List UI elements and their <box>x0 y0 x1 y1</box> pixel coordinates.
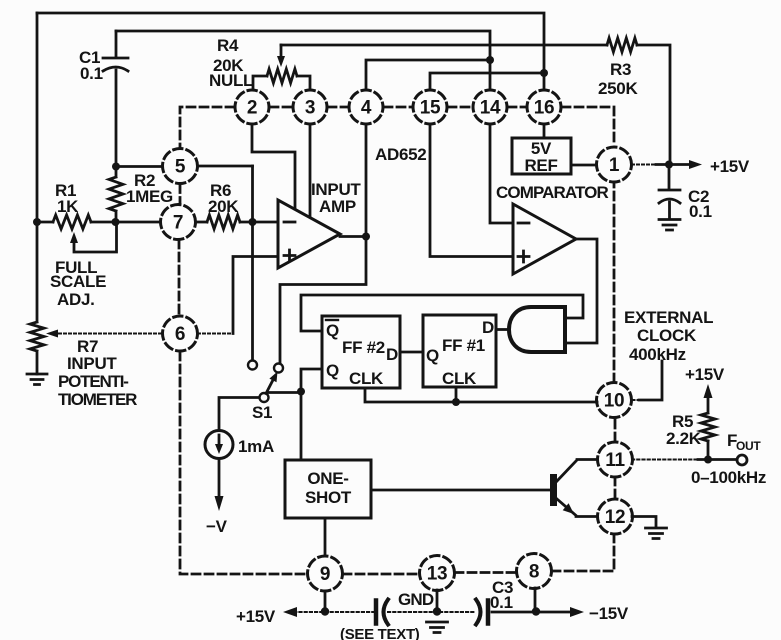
+15V rail arrow left <box>283 607 297 617</box>
wire pin 1 to +15V node <box>632 164 690 166</box>
5V REF box <box>512 138 571 174</box>
wire pin 4 down through amp output to S1 right contact <box>280 124 366 363</box>
wire pin 2 jog down to amp top <box>252 124 295 209</box>
resistor R1 (pot) <box>53 215 91 229</box>
dashed IC edge pin 16 to pin 1 <box>562 107 614 146</box>
wire FF2 D to FF1 Q <box>400 351 423 354</box>
svg-text:15: 15 <box>420 98 441 119</box>
label FF2 pins <box>326 321 398 388</box>
pin 3 <box>293 90 327 124</box>
label SEE TEXT <box>340 626 420 640</box>
wire comparator output to gate lower input <box>568 239 597 343</box>
svg-text:0–100kHz: 0–100kHz <box>691 468 766 487</box>
svg-text:ADJ.: ADJ. <box>57 290 95 309</box>
svg-text:1K: 1K <box>57 197 79 216</box>
wire node column down to switch S1 left contact <box>251 166 254 360</box>
svg-text:250K: 250K <box>598 79 638 98</box>
pin 8 <box>517 554 552 589</box>
svg-text:2.2K: 2.2K <box>666 429 702 448</box>
wire 5V REF to pin 1 <box>571 164 596 167</box>
svg-text:TIOMETER: TIOMETER <box>58 390 137 409</box>
wire pin 3 down to amp top <box>309 124 312 216</box>
one-shot box <box>285 460 371 518</box>
svg-text:OUT: OUT <box>736 439 761 453</box>
svg-text:11: 11 <box>605 450 625 471</box>
pin 15 <box>413 90 447 124</box>
wire R5 bottom lead to Fout node <box>707 441 710 460</box>
svg-text:CLK: CLK <box>349 369 384 388</box>
R1 wiper full scale adj loop <box>70 225 117 252</box>
pin 11 <box>598 442 633 477</box>
svg-text:9: 9 <box>320 564 330 585</box>
svg-text:6: 6 <box>175 324 185 345</box>
dashed IC edge pin 2 to pin 5 <box>180 107 234 147</box>
pin 16 <box>527 90 561 124</box>
svg-text:5: 5 <box>175 157 186 178</box>
label -15V bottom rail <box>589 604 629 623</box>
wire pin 12 to ground <box>632 517 656 528</box>
wire pin 10 to external clock stub <box>632 361 662 400</box>
svg-text:7: 7 <box>173 213 183 234</box>
wire one-shot output to transistor base <box>371 489 550 492</box>
svg-text:20K: 20K <box>208 197 239 216</box>
svg-text:EXTERNAL: EXTERNAL <box>624 308 713 327</box>
wire pin 14 down to comparator minus <box>490 124 513 223</box>
svg-text:4: 4 <box>361 98 372 119</box>
dashed link pin 15 to pin 14 <box>448 106 472 109</box>
flip-flop FF#1 box <box>423 315 496 387</box>
wire FF2 Q down to one-shot input <box>301 369 322 460</box>
svg-text:Q: Q <box>426 346 439 365</box>
svg-text:0.1: 0.1 <box>689 202 712 221</box>
label INPUT AMP <box>311 180 361 216</box>
svg-text:NULL: NULL <box>209 71 253 90</box>
pin 14 <box>473 90 507 124</box>
comparator minus sign <box>518 222 529 225</box>
wire pin 8 down to bottom rail <box>534 588 537 612</box>
label EXTERNAL CLOCK 400kHz <box>624 308 713 364</box>
pin 5 <box>163 149 198 184</box>
wire pin 15 top to pin 16 riser <box>430 73 544 89</box>
pin 6 <box>163 316 198 351</box>
wire S1 common to 1mA source <box>219 398 259 431</box>
op-amp U1 input amp triangle <box>278 200 340 268</box>
wire FF1 D to gate output <box>496 328 509 331</box>
resistor R7 (input potentiometer) <box>30 222 44 374</box>
svg-text:D: D <box>482 318 494 337</box>
label R2 value <box>126 171 173 206</box>
resistor R2 <box>109 167 123 223</box>
pin 12 <box>598 499 633 534</box>
svg-text:REF: REF <box>524 156 557 175</box>
svg-text:+15V: +15V <box>236 607 276 626</box>
svg-text:FF #1: FF #1 <box>442 336 485 355</box>
svg-text:400kHz: 400kHz <box>629 345 686 364</box>
wire left edge down to input node <box>36 13 39 222</box>
AND gate (mirrored) <box>509 307 565 352</box>
wire amp output to pin 4 column <box>340 235 366 238</box>
capacitor C3 <box>476 600 488 625</box>
label +15V bottom rail <box>236 607 276 626</box>
svg-text:1: 1 <box>609 155 620 176</box>
svg-text:0.1: 0.1 <box>80 64 103 83</box>
wire top rail from left corner to pin 16 riser <box>37 13 544 89</box>
svg-text:POTENTI-: POTENTI- <box>58 372 128 391</box>
pin 13 <box>420 556 455 591</box>
comparator triangle <box>513 204 576 274</box>
R7 wiper arrow <box>46 330 58 338</box>
svg-text:SHOT: SHOT <box>305 488 352 507</box>
svg-text:+15V: +15V <box>710 157 750 176</box>
dashed link pin 3 to pin 4 <box>328 106 348 109</box>
label +15V at R5 <box>685 365 725 384</box>
dashed IC edge pin 10 to pin 1 <box>613 184 616 382</box>
svg-text:3: 3 <box>305 98 315 119</box>
label R7 input potentiometer <box>58 337 137 409</box>
-15V rail arrow right <box>570 607 584 617</box>
wire one-shot bottom to pin 9 <box>324 518 327 556</box>
wire FF2 Qbar up over to gate upper input <box>301 295 583 331</box>
pin 10 <box>597 383 632 418</box>
svg-text:8: 8 <box>529 562 539 583</box>
wire pin 5 to node column <box>116 165 253 168</box>
wire pin 13 down to bottom rail GND node <box>436 590 439 612</box>
minus V lead arrow <box>215 459 224 512</box>
dashed IC edge pin 6 to pin 9 <box>180 352 307 574</box>
svg-text:COMPARATOR: COMPARATOR <box>496 183 609 202</box>
dashed link pin 5 to pin 7 <box>179 185 182 205</box>
capacitor C2 <box>659 165 680 220</box>
wire amp plus input from pin 6 <box>233 257 278 334</box>
svg-text:AMP: AMP <box>319 197 356 216</box>
label ONE-SHOT <box>305 469 352 507</box>
rail capacitor see-text <box>376 600 388 625</box>
dashed link pin 4 to pin 15 <box>384 106 412 109</box>
label R6 value <box>208 181 239 216</box>
dashed IC edge pin 8 to pin 12 <box>552 534 614 571</box>
ground at GND rail node <box>427 622 448 633</box>
svg-text:R4: R4 <box>217 36 239 55</box>
svg-text:Q: Q <box>326 361 339 380</box>
wire pin 7 to R6 <box>196 221 207 224</box>
label C1 value <box>79 48 103 83</box>
switch S1 contacts <box>248 361 283 403</box>
svg-text:CLK: CLK <box>442 369 477 388</box>
svg-text:FF #2: FF #2 <box>342 338 385 357</box>
dashed link pin 14 to pin 16 <box>508 106 526 109</box>
R4 wiper arrow <box>277 45 285 67</box>
label S1 <box>252 403 272 422</box>
svg-text:SCALE: SCALE <box>50 272 106 291</box>
label C2 value <box>688 187 712 221</box>
pin 2 <box>235 90 269 124</box>
R5 +15V arrow <box>704 384 713 398</box>
comparator plus sign <box>518 251 529 262</box>
svg-text:1mA: 1mA <box>238 437 274 456</box>
svg-text:CLOCK: CLOCK <box>637 326 697 345</box>
label R3 value <box>598 60 638 98</box>
dashed link pin 11 to pin 10 <box>614 419 617 441</box>
label Fout <box>727 431 761 453</box>
wire pin 15 down to comparator plus <box>430 124 513 257</box>
wire R4 wiper rail to R3 and +15V corner <box>281 45 670 165</box>
capacitor C1 <box>103 31 128 167</box>
label 5V REF <box>524 139 557 175</box>
ground below R7 <box>27 374 47 385</box>
dashed link pin 12 to pin 11 <box>614 478 617 498</box>
pin 7 <box>161 205 196 240</box>
wire pin 9 down to bottom rail <box>324 591 327 612</box>
wire input node to pin 7 <box>37 221 160 224</box>
resistor R6 <box>207 215 240 229</box>
label R4 value <box>209 36 253 90</box>
svg-text:+15V: +15V <box>685 365 725 384</box>
svg-text:GND: GND <box>398 590 434 609</box>
wire C1 top rail to pin 14 riser <box>116 31 490 89</box>
FF2 Qbar overline <box>326 319 338 321</box>
svg-text:1MEG: 1MEG <box>126 187 173 206</box>
wire dotted R7 wiper to pin 6 <box>59 333 162 335</box>
wire S1 common to junction <box>269 391 302 394</box>
svg-text:R3: R3 <box>610 60 631 79</box>
dashed link pin 13 to pin 8 <box>455 571 517 574</box>
label FULL SCALE ADJ <box>50 258 106 309</box>
dashed link pin 2 to pin 3 <box>270 106 292 109</box>
resistor R3 <box>607 38 637 52</box>
input amp minus sign <box>284 221 295 224</box>
label C3 value <box>490 578 513 612</box>
label 0-100kHz <box>691 468 766 487</box>
label FF1 pins <box>426 318 494 388</box>
svg-text:(SEE TEXT): (SEE TEXT) <box>340 626 420 640</box>
dashed link pin 9 to pin 13 <box>343 573 419 576</box>
+15V arrow at pin 1 <box>689 160 702 169</box>
label R1 value <box>55 181 79 216</box>
resistor R4 (null pot) <box>253 69 310 90</box>
wire pin 16 down to 5V REF box <box>543 124 546 138</box>
pin 9 <box>308 556 343 591</box>
svg-text:Q: Q <box>326 321 339 340</box>
wire clock line FF2 FF1 to pin 10 <box>365 387 597 402</box>
svg-text:0.1: 0.1 <box>490 593 513 612</box>
label AD652 <box>375 145 426 164</box>
svg-text:D: D <box>386 345 398 364</box>
svg-text:−15V: −15V <box>589 604 629 623</box>
label COMPARATOR <box>496 183 609 202</box>
ground at pin 12 <box>646 528 667 539</box>
wire pin 11 to Fout <box>632 459 737 461</box>
wire pin 4 top to pin 14 riser <box>366 60 490 89</box>
label R5 value <box>666 412 702 448</box>
svg-text:ONE-: ONE- <box>307 469 348 488</box>
svg-text:INPUT: INPUT <box>67 354 117 373</box>
wire bottom rail segments <box>289 611 571 613</box>
svg-text:S1: S1 <box>252 403 272 422</box>
svg-text:14: 14 <box>480 98 501 119</box>
label +15V at pin 1 <box>710 157 750 176</box>
resistor R5 <box>701 396 715 441</box>
flip-flop FF#2 box <box>322 316 400 388</box>
current source 1mA <box>205 431 233 459</box>
input amp plus sign <box>284 250 295 261</box>
svg-text:AD652: AD652 <box>375 145 426 164</box>
svg-text:10: 10 <box>604 391 625 412</box>
wire R6 to inverting input node <box>240 221 278 224</box>
label 1mA <box>238 437 274 456</box>
svg-text:16: 16 <box>534 98 555 119</box>
transistor Q1 <box>550 460 598 517</box>
label minus V <box>206 517 228 536</box>
switch S1 arm <box>266 372 278 394</box>
svg-text:12: 12 <box>605 507 626 528</box>
svg-text:−V: −V <box>206 517 228 536</box>
Fout terminal <box>737 455 747 465</box>
wire dotted pin 6 to amp plus riser <box>198 333 233 335</box>
pin 4 <box>349 90 383 124</box>
svg-text:2: 2 <box>247 98 257 119</box>
label GND <box>398 590 434 609</box>
pin 1 <box>597 147 632 182</box>
dashed link pin 7 to pin 6 <box>178 240 181 316</box>
ground below C2 <box>659 220 680 231</box>
svg-text:13: 13 <box>427 564 448 585</box>
